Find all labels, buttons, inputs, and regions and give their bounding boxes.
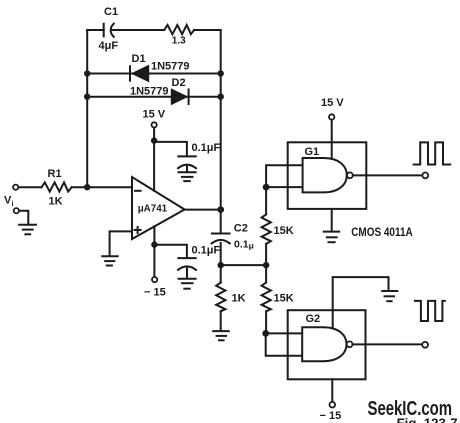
waveform symbol G1 output [414,142,451,164]
wire G2 output [353,343,423,345]
wire 15V to G1 [331,120,333,158]
resistor 1K shunt [216,265,245,331]
junction dot output node [217,206,224,213]
wire G2 input upper [266,332,303,334]
junction dot G1 inputs [263,184,270,191]
svg-text:μA741: μA741 [138,203,168,214]
wire G1 ground stem [331,209,333,231]
svg-text:15 V: 15 V [321,97,344,109]
resistor 1.3 [164,25,194,47]
wire branch to top bypass cap [154,142,187,156]
terminal 15V G1 [329,114,334,119]
svg-text:C1: C1 [104,6,118,18]
wire node C2 to 15K junction [221,264,266,266]
wire G2 input lower [266,333,303,355]
svg-text:G1: G1 [305,146,320,158]
junction dot supply bottom [151,241,157,247]
resistor 15K upper [262,187,294,265]
ground Vi [19,225,36,235]
ground op-amp plus input [102,256,118,265]
wire D1 line [87,73,221,75]
wire D2 line [87,96,221,98]
capacitor 0.1uF bottom [178,245,221,279]
op-amp U1 uA741 [132,177,185,239]
ground G2 [382,291,397,301]
wire C1 to resistor 1.3 [111,29,164,31]
ground 1K [213,331,229,340]
svg-text:0.1μF: 0.1μF [192,142,221,154]
junction dot D2 right [218,94,224,100]
svg-text:1N5779: 1N5779 [151,61,190,73]
svg-text:R1: R1 [48,168,62,180]
NAND gate G1 [303,158,353,192]
input terminal Vin [13,185,18,190]
junction dot C2 bottom node [218,262,224,268]
wire resistor to top-right corner [194,29,221,31]
wire Vi terminal to ground [19,211,28,225]
svg-text:C2: C2 [234,223,248,235]
terminal G1 output [422,173,428,179]
svg-text:CMOS 4011A: CMOS 4011A [351,227,413,239]
wire input to R1 [19,186,42,188]
svg-text:1.3: 1.3 [172,36,186,47]
resistor 15K lower [262,265,294,333]
capacitor C2 [212,223,254,266]
terminal Vi ground side [14,208,19,213]
svg-text:15K: 15K [274,293,294,305]
wire op-amp to -15 terminal [153,226,155,277]
terminal -15 G2 [330,402,336,408]
svg-text:i: i [12,201,14,208]
svg-text:15K: 15K [274,225,294,237]
resistor R1 [42,168,72,208]
junction dot feedback/input [84,184,90,190]
svg-text:1K: 1K [232,293,246,305]
wire G1 input upper [266,165,303,187]
ground G1 [324,232,339,243]
svg-text:0.1μ: 0.1μ [234,239,254,251]
svg-text:D1: D1 [132,53,146,65]
wire +15 supply down to op-amp [153,128,155,191]
capacitor 0.1uF top [178,142,221,172]
svg-text:− 15: − 15 [144,287,166,299]
svg-text:− 15: − 15 [320,410,342,422]
wire R1 to op-amp inverting input [72,186,132,188]
terminal -15 op-amp [152,277,157,282]
svg-text:D2: D2 [172,77,186,89]
IC box G1 [288,142,367,209]
svg-text:0.1μF: 0.1μF [192,245,221,257]
wire op-amp output [185,209,221,211]
wire G1 input lower [266,186,303,188]
junction dot 15K mid node [263,262,269,268]
terminal G2 output [422,342,428,348]
terminal +15 op-amp [152,122,157,127]
wire non-inverting input to ground [110,231,132,256]
ground bottom bypass cap [179,279,196,289]
wire G2 top pin to ground [333,277,389,327]
svg-text:4μF: 4μF [99,40,119,52]
svg-text:1K: 1K [49,196,63,208]
wire G2 bottom pin to -15 [331,379,333,402]
capacitor C1 [99,6,119,52]
junction dot G2 inputs [262,330,269,337]
svg-text:15 V: 15 V [143,109,166,121]
svg-text:G2: G2 [306,313,321,325]
svg-text:1N5779: 1N5779 [130,86,169,98]
label Vi [4,195,14,209]
wire top-left horizontal to C1 [87,29,104,31]
ground top bypass cap [179,172,196,181]
wire branch to bottom bypass cap [154,245,187,258]
IC box G2 [288,310,366,379]
wire right feedback vertical [220,30,222,233]
wire left feedback vertical [86,30,88,187]
wire G1 output [353,174,423,176]
junction dot supply top [151,137,157,143]
junction dot D1 left [84,70,90,76]
junction dot D1 right [218,70,224,76]
diode D2 [130,77,189,105]
NAND gate G2 [302,327,352,361]
diode D1 [130,53,190,82]
junction dot D2 left [84,94,90,100]
waveform symbol G2 output [415,301,445,321]
svg-text:Fig. 123-7: Fig. 123-7 [397,416,458,423]
